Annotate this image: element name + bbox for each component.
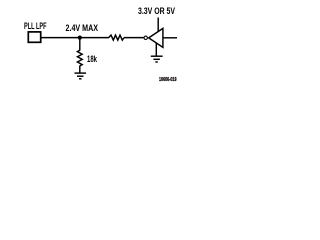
ground (below inverter) [151, 56, 163, 62]
wire inverter output [163, 37, 177, 39]
svg-text:18k: 18k [87, 54, 97, 64]
series resistor (horizontal zigzag) [109, 35, 124, 40]
wire junction down to resistor R 18k [79, 38, 81, 51]
wire inverter to ground [155, 43, 157, 56]
node junction dot [78, 36, 82, 40]
svg-text:3.3V OR 5V: 3.3V OR 5V [138, 6, 176, 16]
wire from box to series resistor [41, 37, 109, 39]
svg-text:10606-019: 10606-019 [159, 77, 177, 83]
svg-text:2.4V MAX: 2.4V MAX [66, 23, 99, 33]
ground (below 18k) [75, 73, 87, 79]
svg-text:PLL LPF: PLL LPF [24, 21, 47, 31]
resistor 18k (vertical zigzag) [77, 50, 82, 66]
inverter U1 (left-pointing triangle) [149, 28, 163, 47]
inverter input bubble [144, 36, 147, 39]
wire resistor to inverter input bubble [124, 37, 144, 39]
wire resistor to ground [79, 66, 81, 73]
PLL LPF source box [28, 32, 40, 42]
power supply wire 3.3V/5V to inverter [157, 18, 159, 33]
